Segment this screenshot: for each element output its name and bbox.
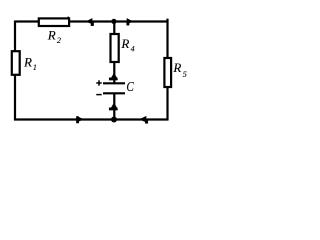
svg-text:R: R xyxy=(120,36,129,51)
svg-text:R: R xyxy=(172,60,181,75)
svg-text:R: R xyxy=(23,55,32,70)
svg-text:C: C xyxy=(126,79,134,94)
svg-text:2: 2 xyxy=(57,36,61,45)
svg-text:1: 1 xyxy=(33,63,37,72)
svg-text:4: 4 xyxy=(131,45,135,54)
svg-text:5: 5 xyxy=(183,70,187,79)
svg-text:R: R xyxy=(47,27,56,42)
